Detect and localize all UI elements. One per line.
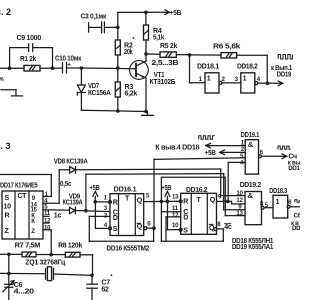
svg-text:DD16.1: DD16.1: [114, 185, 137, 193]
svg-text:DD17 К176ИЕ5: DD17 К176ИЕ5: [0, 181, 38, 189]
svg-text:К выв.4 DD18: К выв.4 DD18: [155, 143, 199, 151]
svg-text:КС156А: КС156А: [88, 89, 111, 97]
svg-text:D: D: [183, 213, 188, 221]
svg-text:11: 11: [172, 205, 179, 212]
svg-text:Z: Z: [31, 228, 35, 235]
svg-text:12: 12: [172, 212, 179, 219]
svg-text:+5В: +5В: [170, 9, 181, 17]
svg-text:S: S: [183, 226, 188, 234]
svg-text:1с: 1с: [54, 211, 62, 219]
svg-text:Т: Т: [197, 196, 202, 204]
svg-text:R5 2k: R5 2k: [160, 42, 177, 50]
svg-text:6: 6: [260, 149, 264, 156]
svg-text:1: 1: [199, 76, 203, 83]
svg-text:DD19 К555ЛА1: DD19 К555ЛА1: [232, 243, 274, 251]
svg-text:&: &: [248, 191, 254, 200]
svg-text:С3 0,1мк: С3 0,1мк: [81, 13, 107, 21]
svg-text:10: 10: [172, 222, 179, 229]
svg-text:1: 1: [243, 74, 247, 82]
svg-text:+5В: +5В: [90, 184, 100, 192]
svg-text:6,2k: 6,2k: [125, 89, 138, 97]
svg-text:ZQ1 32768Гц: ZQ1 32768Гц: [25, 258, 66, 266]
svg-text:R7 7,5М: R7 7,5М: [15, 242, 41, 250]
svg-text:Z: Z: [5, 227, 10, 235]
svg-text:СТ: СТ: [18, 192, 28, 200]
svg-text:9: 9: [218, 193, 222, 200]
svg-text:Q: Q: [209, 224, 215, 232]
svg-text:4: 4: [257, 76, 261, 83]
svg-text:12: 12: [44, 217, 51, 224]
svg-text:S: S: [5, 194, 10, 202]
svg-text:К: К: [31, 218, 35, 225]
svg-text:10: 10: [4, 203, 12, 211]
svg-text:5: 5: [146, 193, 150, 200]
svg-text:КС139А: КС139А: [63, 199, 83, 207]
svg-text:6: 6: [147, 221, 151, 228]
svg-text:10: 10: [44, 224, 51, 231]
svg-text:0,5с: 0,5с: [60, 180, 72, 188]
svg-text:R: R: [113, 198, 118, 206]
svg-text:D: D: [113, 214, 118, 222]
svg-text:+5В: +5В: [161, 184, 171, 192]
svg-text:1: 1: [276, 198, 280, 206]
svg-text:с. 2: с. 2: [0, 7, 11, 17]
svg-text:&: &: [248, 140, 254, 149]
svg-text:3: 3: [235, 76, 239, 83]
svg-text:4...20: 4...20: [14, 287, 34, 295]
svg-text:DD19.2: DD19.2: [240, 181, 262, 189]
svg-text:2: 2: [222, 76, 226, 83]
svg-text:DD16 К555ТМ2: DD16 К555ТМ2: [107, 244, 150, 252]
svg-text:С9 1000: С9 1000: [17, 34, 42, 42]
svg-text:5,1k: 5,1k: [153, 33, 164, 41]
svg-text:DD1: DD1: [288, 165, 300, 172]
svg-text:DD18.2: DD18.2: [237, 63, 258, 71]
svg-text:R6 5,6k: R6 5,6k: [213, 43, 240, 51]
svg-text:11: 11: [44, 210, 51, 217]
svg-text:R: R: [183, 197, 188, 205]
svg-text:Сб: Сб: [294, 213, 301, 220]
svg-text:с. 3: с. 3: [0, 141, 11, 151]
svg-text:Q: Q: [137, 197, 143, 205]
svg-text:DD16.2: DD16.2: [186, 186, 208, 194]
svg-text:КТ3102Б: КТ3102Б: [150, 78, 176, 86]
svg-text:10: 10: [236, 190, 243, 197]
svg-text:DD19: DD19: [277, 71, 292, 79]
svg-text:DD: DD: [292, 225, 300, 232]
svg-text:S: S: [113, 225, 118, 233]
svg-text:13: 13: [236, 210, 243, 217]
svg-text:1: 1: [207, 74, 211, 82]
svg-text:+5В: +5В: [205, 149, 216, 157]
svg-text:к.: к.: [0, 76, 5, 83]
svg-text:R: R: [5, 212, 10, 220]
svg-text:62: 62: [101, 286, 109, 294]
svg-text:R1 2k: R1 2k: [20, 55, 36, 63]
svg-text:8: 8: [217, 221, 221, 228]
svg-text:6: 6: [288, 199, 292, 206]
svg-text:2,5...3В: 2,5...3В: [152, 59, 179, 67]
svg-text:20k: 20k: [124, 48, 133, 56]
svg-text:DD18.3: DD18.3: [269, 187, 287, 195]
svg-text:Q: Q: [210, 196, 216, 204]
svg-text:VD8 КС139А: VD8 КС139А: [54, 158, 88, 166]
svg-text:DD18.1: DD18.1: [197, 63, 219, 71]
svg-text:Т: Т: [125, 194, 130, 202]
svg-text:DD19.1: DD19.1: [241, 131, 260, 139]
svg-text:3: 3: [104, 205, 108, 212]
svg-text:1: 1: [104, 194, 108, 201]
svg-text:13: 13: [172, 194, 179, 201]
svg-text:R8 120k: R8 120k: [58, 242, 82, 250]
